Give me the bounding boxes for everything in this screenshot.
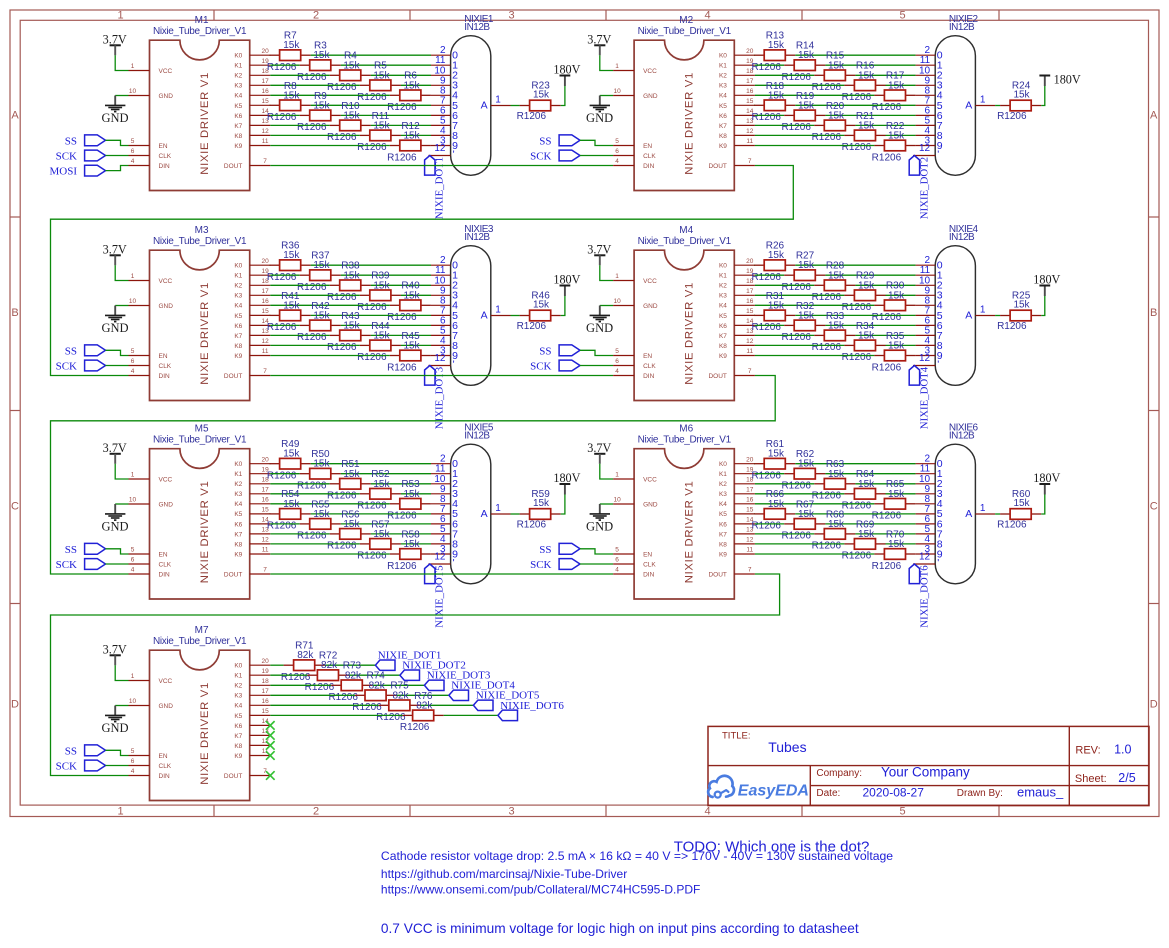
- wire: [311, 104, 431, 106]
- wire: [855, 533, 915, 535]
- svg-text:7: 7: [748, 158, 752, 165]
- net flag SS: [539, 345, 580, 357]
- svg-text:K6: K6: [234, 323, 242, 330]
- svg-text:12: 12: [746, 338, 754, 345]
- svg-text:16: 16: [261, 497, 269, 504]
- svg-text:15k: 15k: [828, 519, 845, 530]
- svg-text:R1206: R1206: [812, 132, 842, 143]
- svg-text:10: 10: [613, 497, 621, 504]
- wire: [825, 473, 915, 475]
- svg-text:NIXIE DRIVER V1: NIXIE DRIVER V1: [199, 72, 211, 175]
- wire anode to 180V: [561, 86, 565, 106]
- svg-text:GND: GND: [101, 321, 128, 335]
- resistor R63 15k: [812, 459, 856, 501]
- connector NIXIE4 IN12B: [935, 224, 978, 385]
- wire: [270, 124, 329, 126]
- svg-text:SCK: SCK: [56, 151, 77, 163]
- svg-text:K2: K2: [234, 73, 242, 80]
- ground symbol GND: [586, 306, 613, 335]
- svg-text:R1206: R1206: [812, 342, 842, 353]
- resistor R40 15k: [387, 281, 431, 323]
- svg-text:M6: M6: [679, 424, 693, 435]
- svg-text:K4: K4: [234, 93, 242, 100]
- power flag 3.7V: [103, 643, 127, 666]
- svg-text:A: A: [1150, 110, 1158, 122]
- wire: [270, 483, 329, 485]
- svg-text:K7: K7: [719, 531, 727, 538]
- svg-text:K1: K1: [234, 471, 242, 478]
- svg-text:20: 20: [746, 258, 754, 265]
- resistor R21 15k: [842, 111, 886, 153]
- svg-text:K7: K7: [234, 333, 242, 340]
- svg-text:R1206: R1206: [781, 282, 811, 293]
- svg-text:K8: K8: [234, 743, 242, 750]
- svg-text:R1206: R1206: [327, 541, 357, 552]
- svg-text:15k: 15k: [798, 50, 815, 61]
- svg-text:15k: 15k: [403, 489, 420, 500]
- svg-text:K1: K1: [719, 63, 727, 70]
- resistor R54 15k: [267, 489, 311, 531]
- svg-text:EN: EN: [643, 551, 652, 558]
- no-connect X: [266, 731, 275, 740]
- power flag 180V: [553, 272, 580, 296]
- svg-text:10: 10: [129, 298, 137, 305]
- resistor R58 15k: [387, 529, 431, 571]
- M6 left pins VCC GND EN CLK DIN: [613, 472, 658, 579]
- svg-text:15k: 15k: [403, 131, 420, 142]
- wire: [825, 114, 915, 116]
- EasyEDA logo: [708, 776, 809, 800]
- svg-text:15k: 15k: [313, 509, 330, 520]
- resistor R25 15k anode: [997, 290, 1041, 332]
- wire: [269, 463, 272, 465]
- wire: [755, 334, 814, 336]
- net flag SS: [539, 135, 580, 147]
- svg-text:M3: M3: [195, 225, 209, 236]
- svg-text:15k: 15k: [768, 250, 785, 261]
- net flag NIXIE_DOT3: [425, 366, 446, 430]
- connector NIXIE6 IN12B: [935, 423, 978, 584]
- svg-text:15: 15: [746, 308, 754, 315]
- net flag NIXIE_DOT1: [375, 650, 441, 671]
- no-connect X: [266, 751, 275, 760]
- wire SS to EN: [106, 549, 129, 554]
- svg-text:K9: K9: [719, 551, 727, 558]
- wire SS to EN: [106, 350, 129, 355]
- wire: [401, 543, 431, 545]
- svg-text:K7: K7: [234, 733, 242, 740]
- svg-text:A: A: [11, 110, 19, 122]
- resistor R53 15k: [387, 479, 431, 521]
- svg-text:K1: K1: [234, 273, 242, 280]
- svg-text:DOUT: DOUT: [224, 373, 242, 380]
- svg-text:K2: K2: [234, 481, 242, 488]
- svg-text:15k: 15k: [888, 539, 905, 550]
- M4 right pins K0-K9 DOUT: [708, 258, 754, 380]
- svg-text:15k: 15k: [373, 330, 390, 341]
- svg-text:M2: M2: [679, 15, 693, 26]
- resistor R73 82k: [328, 661, 372, 703]
- wire: [311, 513, 431, 515]
- NIXIE4 cathode pin stubs: [913, 255, 943, 370]
- resistor R36 15k: [267, 241, 311, 283]
- wire: [825, 523, 915, 525]
- svg-text:IN12B: IN12B: [949, 431, 975, 442]
- svg-text:15k: 15k: [533, 300, 550, 311]
- wire anode to 180V: [1041, 296, 1045, 316]
- svg-text:2020-08-27: 2020-08-27: [863, 786, 925, 800]
- svg-text:R1206: R1206: [267, 471, 297, 482]
- wire: [755, 94, 875, 96]
- svg-text:DOUT: DOUT: [224, 571, 242, 578]
- resistor R18 15k: [751, 81, 795, 123]
- svg-text:18: 18: [261, 678, 269, 685]
- resistor R72 82k: [305, 651, 349, 693]
- svg-text:R1206: R1206: [812, 541, 842, 552]
- wire: [269, 513, 272, 515]
- wire: [341, 274, 431, 276]
- svg-text:4: 4: [131, 567, 135, 574]
- IC M3 Nixie_Tube_Driver_V1: [150, 225, 250, 400]
- M7 right pins K0-K9 DOUT: [224, 658, 270, 780]
- svg-text:M1: M1: [195, 15, 209, 26]
- resistor R59 15k anode: [517, 489, 561, 531]
- wire SS to EN: [106, 750, 129, 755]
- power flag 180V: [1033, 272, 1060, 296]
- IC M1 Nixie_Tube_Driver_V1: [150, 15, 250, 190]
- wire: [311, 54, 431, 56]
- net flag SCK: [56, 150, 106, 162]
- svg-text:C: C: [1150, 501, 1158, 513]
- resistor R13 15k: [751, 31, 795, 73]
- svg-text:CLK: CLK: [159, 153, 172, 160]
- svg-text:6: 6: [615, 148, 619, 155]
- resistor R16 15k: [842, 61, 886, 103]
- resistor R10 15k: [327, 101, 371, 143]
- wire: [444, 714, 498, 716]
- wire: [269, 264, 272, 266]
- wire: [825, 64, 915, 66]
- svg-text:NIXIE DRIVER V1: NIXIE DRIVER V1: [199, 481, 211, 584]
- svg-text:A: A: [481, 310, 488, 322]
- wire: [341, 324, 431, 326]
- net flag SCK: [530, 150, 580, 162]
- wire: [886, 493, 916, 495]
- wire anode to 180V: [1041, 495, 1045, 515]
- svg-text:10: 10: [129, 497, 137, 504]
- svg-text:180V: 180V: [1033, 471, 1060, 485]
- resistor R26 15k: [751, 241, 795, 283]
- svg-text:TODO: Which one is the dot?: TODO: Which one is the dot?: [674, 838, 870, 855]
- svg-text:82k: 82k: [392, 690, 409, 701]
- resistor R6 15k: [387, 71, 431, 113]
- svg-text:1: 1: [117, 9, 123, 21]
- wire: [341, 523, 431, 525]
- wire: [795, 513, 915, 515]
- NIXIE1 anode pin A: [481, 94, 511, 111]
- svg-text:R1206: R1206: [357, 352, 387, 363]
- svg-text:7: 7: [748, 567, 752, 574]
- wire: [270, 674, 307, 676]
- svg-text:K2: K2: [719, 481, 727, 488]
- wire: [886, 294, 916, 296]
- resistor R65 15k: [872, 479, 916, 521]
- svg-text:R1206: R1206: [842, 551, 872, 562]
- wire: [371, 74, 431, 76]
- net flag SS: [65, 745, 106, 757]
- svg-text:12: 12: [434, 143, 446, 154]
- svg-text:R1206: R1206: [267, 112, 297, 123]
- svg-text:B: B: [1150, 307, 1157, 319]
- wire: [270, 493, 360, 495]
- wire: [401, 294, 431, 296]
- svg-text:DOUT: DOUT: [224, 773, 242, 780]
- svg-text:20: 20: [261, 258, 269, 265]
- svg-text:GND: GND: [586, 519, 613, 533]
- svg-text:GND: GND: [101, 111, 128, 125]
- svg-text:R1206: R1206: [297, 72, 327, 83]
- svg-text:R1206: R1206: [517, 321, 547, 332]
- svg-text:15k: 15k: [888, 131, 905, 142]
- svg-text:K6: K6: [719, 323, 727, 330]
- svg-text:EN: EN: [159, 353, 168, 360]
- svg-text:SS: SS: [65, 135, 77, 147]
- ground symbol GND: [586, 96, 613, 125]
- svg-text:K6: K6: [234, 113, 242, 120]
- svg-text:SCK: SCK: [530, 361, 551, 373]
- svg-text:DIN: DIN: [159, 163, 171, 170]
- M5 right pins K0-K9 DOUT: [224, 456, 270, 578]
- wire: [270, 714, 402, 716]
- svg-text:1.0: 1.0: [1114, 743, 1131, 757]
- svg-text:180V: 180V: [553, 471, 580, 485]
- svg-text:15k: 15k: [283, 40, 300, 51]
- svg-text:R1206: R1206: [751, 272, 781, 283]
- svg-text:11: 11: [746, 138, 753, 145]
- svg-text:GND: GND: [159, 501, 174, 508]
- svg-text:R1206: R1206: [751, 521, 781, 532]
- ground symbol GND: [101, 504, 128, 533]
- svg-text:NIXIE DRIVER V1: NIXIE DRIVER V1: [199, 282, 211, 385]
- wire: [886, 543, 916, 545]
- wire: [270, 694, 355, 696]
- svg-text:12: 12: [434, 552, 446, 563]
- svg-text:DOUT: DOUT: [708, 571, 726, 578]
- wire: [270, 114, 299, 116]
- svg-text:R1206: R1206: [751, 112, 781, 123]
- svg-text:EN: EN: [159, 753, 168, 760]
- wire M2 DOUT to M3 DIN: [51, 166, 794, 376]
- svg-text:IN12B: IN12B: [464, 431, 490, 442]
- svg-text:15k: 15k: [828, 270, 845, 281]
- svg-text:Drawn By:: Drawn By:: [957, 788, 1003, 799]
- svg-text:EN: EN: [643, 353, 652, 360]
- svg-text:4: 4: [615, 368, 619, 375]
- svg-text:5: 5: [899, 806, 905, 818]
- wire GND pin: [115, 705, 128, 707]
- svg-text:4: 4: [131, 158, 135, 165]
- svg-text:82k: 82k: [416, 700, 433, 711]
- svg-text:CLK: CLK: [643, 561, 656, 568]
- wire M6 DOUT to M7 DIN: [51, 574, 780, 776]
- svg-text:20: 20: [746, 456, 754, 463]
- power flag 180V: [1033, 471, 1060, 495]
- svg-text:VCC: VCC: [643, 68, 657, 75]
- svg-text:16: 16: [261, 698, 269, 705]
- net flag NIXIE_DOT3: [424, 670, 490, 691]
- net flag NIXIE_DOT1: [425, 156, 446, 220]
- svg-text:1: 1: [495, 304, 501, 315]
- svg-text:20: 20: [746, 48, 754, 55]
- svg-text:SS: SS: [539, 544, 551, 556]
- svg-text:R1206: R1206: [387, 102, 417, 113]
- wire SCK to CLK: [580, 365, 613, 367]
- M2 left pins VCC GND EN CLK DIN: [613, 63, 658, 170]
- svg-text:K8: K8: [719, 343, 727, 350]
- svg-text:R1206: R1206: [267, 521, 297, 532]
- svg-text:20: 20: [261, 456, 269, 463]
- svg-text:15k: 15k: [888, 80, 905, 91]
- svg-text:R1206: R1206: [997, 321, 1027, 332]
- svg-text:16: 16: [746, 298, 754, 305]
- svg-text:DIN: DIN: [643, 163, 655, 170]
- svg-text:R1206: R1206: [781, 122, 811, 133]
- svg-text:11: 11: [746, 348, 753, 355]
- wire M5 DOUT to M6 DIN: [270, 573, 613, 575]
- svg-text:IN12B: IN12B: [464, 232, 490, 243]
- svg-text:CLK: CLK: [159, 561, 172, 568]
- svg-text:GND: GND: [159, 93, 174, 100]
- svg-text:R1206: R1206: [297, 531, 327, 542]
- NIXIE4 anode pin A: [965, 304, 995, 321]
- svg-text:R1206: R1206: [357, 302, 387, 313]
- svg-text:K5: K5: [234, 103, 242, 110]
- svg-text:12: 12: [746, 537, 754, 544]
- wire anode to 180V: [561, 296, 565, 316]
- svg-text:R1206: R1206: [872, 152, 902, 163]
- svg-text:7: 7: [263, 368, 267, 375]
- svg-text:1: 1: [495, 503, 501, 514]
- svg-text:C: C: [11, 501, 19, 513]
- wire: [795, 104, 915, 106]
- M2 right pins K0-K9 DOUT: [708, 48, 754, 170]
- wire 3.7V to VCC: [115, 464, 128, 479]
- svg-text:NIXIE DRIVER V1: NIXIE DRIVER V1: [683, 481, 695, 584]
- svg-text:15k: 15k: [343, 469, 360, 480]
- wire: [755, 473, 784, 475]
- resistor R30 15k: [872, 281, 916, 323]
- svg-text:R1206: R1206: [842, 92, 872, 103]
- svg-text:15k: 15k: [373, 529, 390, 540]
- wire: [995, 105, 1000, 107]
- svg-text:15k: 15k: [768, 300, 785, 311]
- svg-text:12: 12: [919, 353, 931, 364]
- svg-text:': ': [937, 359, 939, 371]
- wire: [325, 664, 376, 666]
- M6 right pins K0-K9 DOUT: [708, 456, 754, 578]
- net flag NIXIE_DOT5: [425, 564, 446, 628]
- wire: [401, 134, 431, 136]
- resistor R56 15k: [327, 509, 371, 551]
- svg-text:SS: SS: [539, 135, 551, 147]
- svg-text:15k: 15k: [373, 120, 390, 131]
- svg-text:6: 6: [131, 358, 135, 365]
- wire: [995, 315, 1000, 317]
- svg-text:15k: 15k: [343, 270, 360, 281]
- svg-text:Nixie_Tube_Driver_V1: Nixie_Tube_Driver_V1: [638, 26, 732, 37]
- wire GND pin: [115, 95, 128, 97]
- svg-text:1: 1: [615, 472, 619, 479]
- svg-text:5: 5: [131, 547, 135, 554]
- NIXIE5 cathode pin stubs: [428, 454, 458, 569]
- svg-text:15k: 15k: [1013, 300, 1030, 311]
- svg-text:SS: SS: [65, 745, 77, 757]
- svg-text:15k: 15k: [858, 479, 875, 490]
- svg-text:M5: M5: [195, 424, 209, 435]
- wire: [511, 105, 520, 107]
- wire: [795, 264, 915, 266]
- svg-text:SS: SS: [539, 345, 551, 357]
- wire: [270, 274, 299, 276]
- svg-text:7: 7: [263, 567, 267, 574]
- svg-text:11: 11: [262, 138, 269, 145]
- svg-text:K0: K0: [234, 663, 242, 670]
- svg-text:M4: M4: [679, 225, 693, 236]
- resistor R71 82k: [281, 641, 325, 683]
- net flag SCK: [530, 360, 580, 372]
- svg-text:TITLE:: TITLE:: [722, 731, 751, 742]
- svg-text:15: 15: [261, 708, 269, 715]
- power flag 3.7V: [103, 441, 127, 464]
- svg-text:R1206: R1206: [297, 481, 327, 492]
- wire: [270, 74, 329, 76]
- svg-text:180V: 180V: [553, 272, 580, 286]
- wire: [855, 284, 915, 286]
- svg-text:7: 7: [748, 368, 752, 375]
- resistor R27 15k: [781, 251, 825, 293]
- svg-text:K5: K5: [719, 511, 727, 518]
- wire: [753, 54, 756, 56]
- wire: [270, 134, 360, 136]
- svg-text:EasyEDA: EasyEDA: [738, 782, 809, 799]
- net flag MOSI: [49, 165, 105, 177]
- svg-text:15k: 15k: [798, 100, 815, 111]
- svg-text:15k: 15k: [343, 110, 360, 121]
- svg-text:IN12B: IN12B: [949, 232, 975, 243]
- svg-text:K5: K5: [234, 313, 242, 320]
- resistor R37 15k: [297, 251, 341, 293]
- svg-text:R1206: R1206: [297, 122, 327, 133]
- svg-text:https://github.com/marcinsaj/N: https://github.com/marcinsaj/Nixie-Tube-…: [381, 867, 627, 881]
- svg-text:EN: EN: [159, 143, 168, 150]
- resistor R14 15k: [781, 41, 825, 83]
- svg-text:K9: K9: [234, 551, 242, 558]
- wire: [311, 463, 431, 465]
- resistor R76 82k: [400, 691, 444, 733]
- svg-text:15k: 15k: [798, 459, 815, 470]
- svg-text:1: 1: [980, 94, 986, 105]
- svg-text:A: A: [965, 310, 972, 322]
- net flag SCK: [56, 360, 106, 372]
- NIXIE3 anode pin A: [481, 304, 511, 321]
- resistor R67 15k: [781, 499, 825, 541]
- wire: [396, 694, 449, 696]
- svg-text:Sheet:: Sheet:: [1075, 773, 1107, 785]
- wire GND pin: [600, 305, 613, 307]
- svg-text:K0: K0: [234, 461, 242, 468]
- svg-text:2: 2: [313, 806, 319, 818]
- svg-text:K3: K3: [719, 83, 727, 90]
